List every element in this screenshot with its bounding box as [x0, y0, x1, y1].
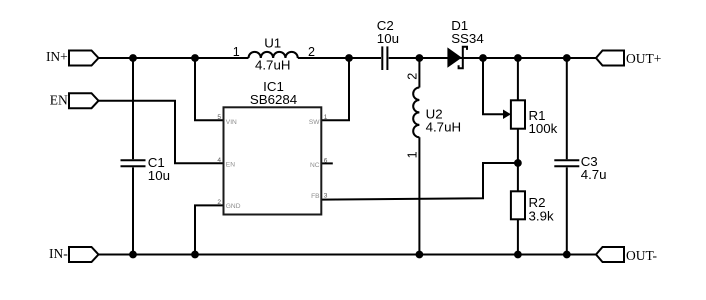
- svg-text:2: 2: [308, 45, 315, 59]
- connector IN-: [69, 247, 99, 262]
- svg-text:SS34: SS34: [451, 31, 484, 46]
- svg-text:3: 3: [324, 192, 328, 199]
- wire R1 top leg: [517, 58, 519, 100]
- svg-text:2: 2: [406, 73, 420, 80]
- potentiometer R1 wiper arrowhead: [503, 110, 511, 120]
- wire R1 bottom leg: [517, 129, 519, 192]
- diode D1 anode triangle: [447, 47, 461, 67]
- svg-text:OUT-: OUT-: [626, 248, 658, 263]
- svg-text:5: 5: [217, 114, 221, 121]
- node junction wiper top: [479, 54, 487, 62]
- wire U2 lower leg: [418, 137, 420, 254]
- node junction FB divider: [514, 159, 522, 167]
- capacitor C2 plates: [381, 46, 383, 70]
- svg-text:FB: FB: [311, 193, 320, 200]
- svg-text:10u: 10u: [377, 31, 399, 46]
- wire C2 to OUT+: [389, 57, 596, 59]
- svg-text:SB6284: SB6284: [250, 92, 297, 107]
- svg-text:EN: EN: [226, 161, 235, 168]
- svg-text:4: 4: [217, 157, 221, 164]
- resistor R1 body: [511, 100, 525, 128]
- node junction IN+/C1: [129, 54, 137, 62]
- inductor U1 coil: [249, 52, 298, 58]
- capacitor C1 plates: [121, 159, 146, 161]
- node junction C3 top: [563, 54, 571, 62]
- node junction R1 top: [514, 54, 522, 62]
- wire top rail IN+ to U1: [99, 57, 249, 59]
- svg-text:1: 1: [233, 45, 240, 59]
- wire SW branch: [321, 58, 349, 120]
- svg-text:2: 2: [217, 199, 221, 206]
- wire C3 upper leg: [566, 58, 568, 159]
- diode D1 schottky cathode: [459, 47, 467, 69]
- svg-text:1: 1: [406, 151, 420, 158]
- svg-text:4.7uH: 4.7uH: [255, 58, 290, 73]
- node junction U2 bottom: [416, 251, 424, 259]
- svg-text:IN+: IN+: [46, 49, 68, 64]
- wire C1 branch lower: [132, 167, 134, 254]
- wire U1 to C2: [298, 57, 381, 59]
- op-amp IC1 box: [224, 107, 322, 214]
- node junction U2 top: [416, 54, 424, 62]
- svg-text:100k: 100k: [529, 121, 558, 136]
- wire FB to divider: [321, 163, 518, 200]
- svg-text:VIN: VIN: [226, 119, 237, 126]
- wire bottom rail: [99, 254, 597, 256]
- svg-text:EN: EN: [50, 93, 68, 108]
- node junction C3 bottom: [563, 251, 571, 259]
- node junction GND bottom: [191, 251, 199, 259]
- svg-text:6: 6: [324, 158, 328, 165]
- inductor U2 coil: [413, 88, 419, 138]
- svg-text:10u: 10u: [148, 168, 170, 183]
- wire NC stub: [321, 162, 333, 164]
- resistor R2 body: [511, 191, 525, 219]
- wire C1 branch upper: [132, 58, 134, 159]
- wire EN branch: [99, 101, 224, 164]
- wire U2 upper leg: [418, 58, 420, 88]
- node junction R2 bottom: [514, 251, 522, 259]
- wire VIN branch: [195, 58, 224, 120]
- svg-text:NC: NC: [310, 162, 320, 169]
- svg-text:4.7u: 4.7u: [581, 167, 607, 182]
- wire R2 bottom leg: [517, 219, 519, 254]
- svg-text:GND: GND: [226, 203, 241, 210]
- wire GND branch: [195, 205, 224, 254]
- node junction SW: [345, 54, 353, 62]
- svg-text:1: 1: [324, 114, 328, 121]
- node junction VIN: [191, 54, 199, 62]
- wire R1 wiper branch: [483, 58, 504, 114]
- svg-text:4.7uH: 4.7uH: [426, 119, 461, 134]
- capacitor C3 plates: [554, 159, 579, 161]
- wire C3 lower leg: [566, 167, 568, 254]
- svg-text:3.9k: 3.9k: [529, 208, 554, 223]
- node junction C1 bottom: [129, 251, 137, 259]
- connector OUT-: [596, 247, 624, 262]
- svg-text:OUT+: OUT+: [626, 51, 661, 66]
- connector IN+: [69, 51, 99, 66]
- connector OUT+: [596, 51, 624, 66]
- svg-text:U1: U1: [264, 36, 281, 51]
- svg-text:SW: SW: [309, 119, 320, 126]
- connector EN: [69, 93, 99, 108]
- svg-text:IN-: IN-: [49, 246, 68, 261]
